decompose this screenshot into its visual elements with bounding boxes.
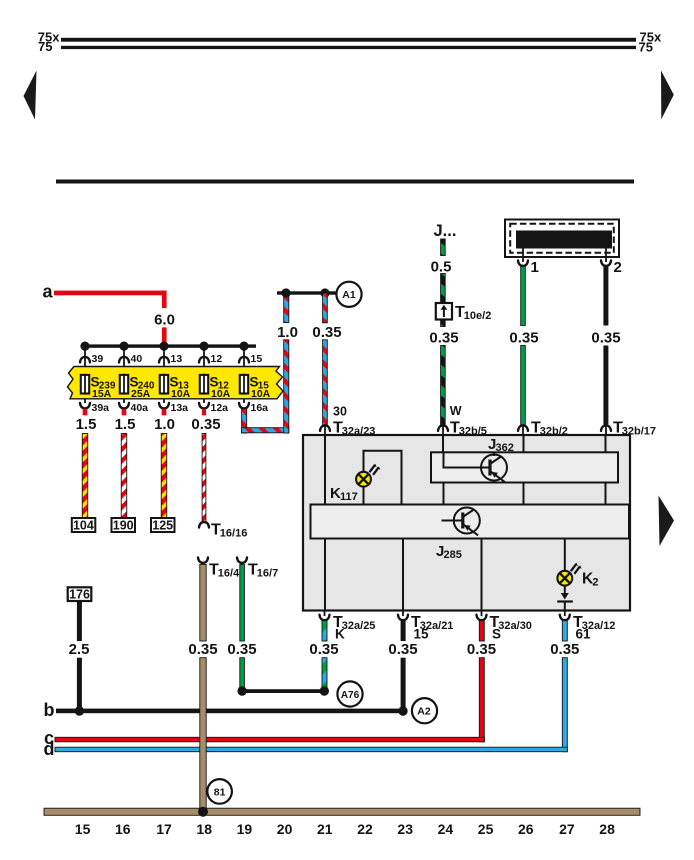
svg-text:A1: A1: [342, 289, 356, 301]
svg-text:190: 190: [113, 519, 134, 533]
svg-text:1: 1: [531, 259, 539, 276]
wire blue T32a/12 upper: [562, 621, 567, 641]
node A76: [337, 681, 362, 706]
wire internal to K2: [564, 539, 566, 594]
svg-text:10A: 10A: [171, 388, 191, 400]
svg-text:J...: J...: [434, 222, 457, 240]
wire black T32a/21 lower: [401, 658, 406, 711]
relay box J285: [311, 505, 630, 539]
component box top right outer: [505, 220, 619, 258]
pin T32a/25: [324, 611, 326, 617]
svg-text:75: 75: [38, 39, 52, 54]
svg-text:13: 13: [171, 353, 183, 365]
svg-text:0.35: 0.35: [312, 324, 341, 341]
pin 13a: [159, 403, 169, 409]
wire stub f1: [83, 409, 88, 416]
wire internal T32a/23 down upper: [324, 436, 326, 505]
svg-text:17: 17: [156, 821, 172, 837]
svg-text:75: 75: [639, 39, 653, 54]
svg-text:12: 12: [211, 353, 223, 365]
svg-text:A76: A76: [341, 690, 360, 701]
pin T32b/2: [518, 425, 528, 431]
wire black 2.5 upper: [77, 601, 82, 641]
svg-text:13a: 13a: [171, 402, 189, 414]
pin 12: [199, 357, 209, 363]
pin 40a: [119, 403, 129, 409]
wire internal J362-J285 link1: [443, 483, 445, 505]
svg-text:6.0: 6.0: [154, 312, 175, 329]
pin 1: [522, 248, 524, 262]
wire red/blue 1.0 upper: [284, 293, 289, 323]
wire internal T32b/2 to J362: [523, 436, 525, 452]
connector T10e/2 box: [436, 303, 452, 320]
wire fuse column 1: [84, 346, 86, 403]
node dot fuse bus 1: [80, 342, 89, 351]
pin T16/4: [198, 557, 208, 563]
lamp K2: [557, 563, 581, 586]
pin T16/7: [237, 557, 247, 563]
wire brown T16/4 lower: [200, 658, 206, 812]
svg-text:125: 125: [152, 519, 173, 533]
wire red/blue U left leg: [242, 409, 247, 433]
pin 40: [119, 357, 129, 363]
svg-text:1.5: 1.5: [76, 416, 97, 433]
svg-text:81: 81: [214, 786, 226, 798]
wire internal T32a/23 down lower: [324, 539, 326, 611]
svg-text:A2: A2: [417, 706, 431, 718]
svg-text:39: 39: [92, 353, 104, 365]
wire internal to T32a/21: [402, 539, 404, 611]
wire brown T16/4 upper: [200, 565, 206, 642]
svg-text:12a: 12a: [211, 402, 229, 414]
node dot ground 18: [198, 807, 208, 817]
arrow right top: [661, 71, 674, 120]
fuse S15: [240, 375, 248, 394]
fuse S239: [81, 375, 89, 394]
wire 75 bus: [61, 46, 636, 49]
wire blue/green T32a/25 upper: [322, 621, 327, 641]
svg-text:28: 28: [599, 821, 615, 837]
svg-text:W: W: [450, 404, 462, 418]
svg-text:176: 176: [69, 588, 90, 602]
wire black pin2 upper: [603, 267, 608, 326]
component box black core: [516, 231, 612, 249]
transistor J285: [442, 520, 456, 522]
svg-text:40a: 40a: [131, 402, 149, 414]
node dot fuse bus 4: [199, 342, 208, 351]
svg-text:a: a: [43, 282, 54, 302]
wire red/blue 1.0 lower: [284, 340, 289, 433]
divider line: [56, 180, 634, 184]
svg-text:16: 16: [115, 821, 131, 837]
pin T16/16: [199, 522, 209, 528]
svg-text:19: 19: [237, 821, 253, 837]
lamp K117: [356, 464, 380, 487]
wire fuse bus: [81, 344, 256, 347]
pin T32a/21: [402, 611, 404, 617]
wire striped red/white f4: [202, 434, 206, 522]
wire green T16/7 upper: [240, 565, 245, 642]
node dot A76 right: [320, 686, 329, 695]
svg-text:21: 21: [317, 821, 333, 837]
svg-text:1.0: 1.0: [277, 324, 298, 341]
node box 104: [72, 518, 96, 532]
pin T32a/23: [320, 425, 330, 431]
svg-text:d: d: [44, 739, 55, 759]
wire internal J362-J285 link2: [523, 483, 525, 505]
wire internal T32b/17 to J362: [605, 436, 607, 452]
svg-text:24: 24: [438, 821, 454, 837]
wire K2 to pin with arrow: [561, 593, 569, 600]
control unit box: [303, 435, 630, 611]
svg-text:22: 22: [357, 821, 373, 837]
wire red T32a/30 upper: [479, 621, 484, 641]
track numbers: [75, 821, 615, 837]
svg-text:10A: 10A: [251, 388, 271, 400]
svg-text:40: 40: [131, 353, 143, 365]
node dot fuse bus 2: [119, 342, 128, 351]
pin T32a/30: [481, 611, 483, 617]
svg-text:2: 2: [614, 259, 622, 276]
wire black T32a/21 upper: [401, 621, 406, 641]
relay box J362: [431, 452, 618, 482]
wire internal J362-J285 link3: [605, 483, 607, 505]
svg-text:61: 61: [576, 627, 592, 642]
arrow left: [24, 71, 37, 120]
svg-text:0.35: 0.35: [188, 641, 217, 658]
fusebox strip: [68, 367, 284, 399]
wire internal to T32a/30: [481, 539, 483, 611]
svg-text:1.0: 1.0: [154, 416, 175, 433]
wire internal J362 base feed: [444, 452, 482, 467]
svg-text:K: K: [335, 627, 345, 642]
svg-text:0.35: 0.35: [467, 641, 496, 658]
wire c line red: [55, 737, 484, 742]
pin 12a: [199, 403, 209, 409]
wire striped red/yellow f1: [82, 434, 88, 519]
svg-text:0.5: 0.5: [431, 259, 452, 276]
svg-text:0.35: 0.35: [591, 330, 620, 347]
transistor J362: [493, 452, 495, 456]
svg-text:18: 18: [196, 821, 212, 837]
svg-text:27: 27: [559, 821, 575, 837]
wire green/black 0.5 upper: [441, 239, 446, 256]
wire green/black mid: [441, 274, 446, 304]
node dot fuse bus 5: [239, 342, 248, 351]
svg-text:0.35: 0.35: [227, 641, 256, 658]
svg-text:10A: 10A: [211, 388, 231, 400]
ground bus brown: [44, 808, 640, 815]
wire green/black below connector: [441, 320, 446, 327]
svg-text:104: 104: [73, 519, 94, 533]
node dot A2: [398, 706, 407, 715]
wire fuse column 2: [123, 346, 125, 403]
pin 16a: [239, 403, 249, 409]
svg-text:26: 26: [518, 821, 534, 837]
svg-text:16a: 16a: [251, 402, 269, 414]
pin T32b/17: [601, 425, 611, 431]
wire red T32a/30 lower: [479, 658, 484, 742]
fuse S13: [160, 375, 168, 394]
node dot fuse bus 3: [159, 342, 168, 351]
wire green pin1 upper: [521, 267, 526, 326]
pin T32a/12: [564, 611, 566, 617]
svg-text:0.35: 0.35: [309, 641, 338, 658]
pin 39: [80, 357, 90, 363]
wire black pin2 lower: [603, 346, 608, 425]
svg-text:0.35: 0.35: [429, 330, 458, 347]
wire d line blue: [55, 747, 567, 752]
wire fuse column 3: [163, 346, 165, 403]
wire striped red/yellow f3: [161, 434, 167, 519]
svg-text:23: 23: [397, 821, 413, 837]
fuse S240: [120, 375, 128, 394]
wire blue T32a/12 lower: [562, 658, 567, 752]
svg-text:15: 15: [414, 627, 430, 642]
wire stub f2: [122, 409, 127, 416]
wire internal K117 top loop: [364, 451, 402, 505]
svg-text:2.5: 2.5: [69, 641, 90, 658]
node box 176: [68, 587, 92, 601]
pin 13: [159, 357, 169, 363]
wire A1 black line: [277, 291, 337, 294]
svg-text:0.35: 0.35: [509, 330, 538, 347]
node dot b-176: [75, 706, 84, 715]
node box 125: [151, 518, 175, 532]
node dot A76 left: [237, 686, 246, 695]
wire green pin1 lower: [521, 346, 526, 425]
node dot A1 left: [281, 288, 290, 297]
wire stub f4: [202, 409, 206, 416]
node dot A1 right: [320, 288, 329, 297]
pin 2: [605, 248, 607, 262]
wire a red vertical upper: [162, 291, 167, 309]
svg-text:1.5: 1.5: [115, 416, 136, 433]
wire connector segment A76: [242, 689, 324, 693]
svg-text:b: b: [44, 700, 55, 720]
node 81: [207, 779, 232, 804]
wire blue/green T32a/25 lower: [322, 658, 327, 689]
wire striped red/white f2: [121, 434, 127, 519]
svg-text:S: S: [492, 627, 501, 642]
node box 190: [112, 518, 136, 532]
svg-text:0.35: 0.35: [388, 641, 417, 658]
node A2: [412, 698, 437, 723]
wire red/blue 0.35 lower: [323, 340, 328, 425]
svg-text:20: 20: [277, 821, 293, 837]
fuse S12: [200, 375, 208, 394]
svg-text:15A: 15A: [92, 388, 112, 400]
wire red/blue 0.35 upper: [323, 293, 328, 323]
pin 39a: [80, 403, 90, 409]
wire stub f3: [162, 409, 167, 416]
pin T32b/5: [438, 425, 448, 431]
wire a red horizontal: [54, 291, 167, 296]
svg-text:0.35: 0.35: [191, 416, 220, 433]
wire fuse column 4: [203, 346, 205, 403]
svg-text:0.35: 0.35: [550, 641, 579, 658]
wire internal T32b/5 to J362: [442, 436, 444, 452]
node A1: [336, 282, 361, 307]
wire black 2.5 lower: [77, 658, 82, 711]
wire green T16/7 lower: [240, 658, 245, 689]
pin 15: [239, 357, 249, 363]
svg-text:25A: 25A: [131, 388, 151, 400]
svg-text:15: 15: [251, 353, 263, 365]
component box dashed inner: [510, 224, 614, 253]
wire red/blue U bottom: [242, 428, 289, 433]
wire a red vertical lower: [162, 327, 167, 346]
wire 75x bus top: [61, 38, 636, 42]
svg-text:15: 15: [75, 821, 91, 837]
svg-text:30: 30: [333, 405, 347, 419]
svg-text:39a: 39a: [92, 402, 110, 414]
wire green/black lower: [441, 346, 446, 425]
wire b line: [56, 709, 403, 714]
svg-text:25: 25: [478, 821, 494, 837]
wire fuse column 5: [243, 346, 245, 403]
arrow right middle: [659, 496, 675, 547]
